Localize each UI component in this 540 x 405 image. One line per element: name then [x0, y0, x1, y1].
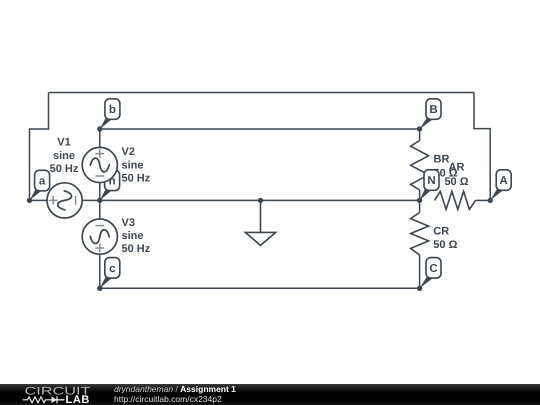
svg-text:50 Hz: 50 Hz [122, 173, 151, 185]
voltage source V1 [47, 183, 82, 218]
svg-text:A: A [500, 175, 508, 187]
junction node b [97, 126, 102, 131]
wire BR to N [419, 190, 421, 200]
label CR 50 ohm [433, 225, 457, 251]
wire CR to C [419, 255, 421, 288]
svg-text:sine: sine [53, 150, 75, 162]
svg-text:b: b [109, 104, 116, 116]
CircuitLab logo [0, 384, 120, 405]
wire right step down to node A [474, 93, 490, 201]
voltage source V2 [82, 147, 117, 182]
node n flag [100, 170, 120, 200]
junction node N [417, 198, 422, 203]
wire V2 bottom to n [99, 183, 101, 201]
svg-text:LAB: LAB [66, 394, 90, 405]
node c flag [100, 258, 120, 289]
svg-text:c: c [109, 263, 116, 275]
svg-text:AR: AR [449, 161, 465, 173]
junction node C [417, 286, 422, 291]
svg-text:BR: BR [434, 154, 450, 166]
svg-text:a: a [39, 176, 46, 188]
svg-text:B: B [429, 104, 437, 116]
label AR 50 ohm [444, 161, 468, 188]
svg-text:V3: V3 [122, 217, 135, 229]
junction node a [27, 198, 32, 203]
ground [245, 200, 275, 245]
wire b to B bus [100, 128, 420, 130]
svg-text:sine: sine [122, 230, 144, 242]
junction ground tap [258, 198, 263, 203]
wire B to resistor BR [419, 129, 421, 141]
junction node c [97, 286, 102, 291]
resistor BR [411, 141, 429, 191]
wire V3 bottom to c [99, 254, 101, 288]
wire V1 to n and mid bus to N [82, 199, 420, 201]
wire b to V2 top [99, 129, 101, 148]
svg-text:50 Ω: 50 Ω [433, 239, 457, 251]
wire AR to A [476, 199, 491, 201]
wire top bus [49, 92, 475, 94]
wire n to V3 top [99, 200, 101, 219]
svg-text:CR: CR [433, 225, 449, 237]
resistor AR [435, 191, 476, 209]
wire left step down to node a [30, 93, 49, 201]
svg-text:V2: V2 [122, 146, 135, 158]
wire N to resistor CR [419, 200, 421, 212]
footer title text [114, 384, 236, 404]
svg-text:50 Hz: 50 Hz [122, 243, 151, 255]
svg-text:C: C [429, 263, 437, 275]
label V2 sine 50 Hz [122, 146, 151, 184]
label BR 50 ohm [434, 154, 458, 180]
wire a to V1 [30, 199, 48, 201]
svg-text:50 Ω: 50 Ω [444, 176, 468, 188]
node a flag [30, 170, 50, 200]
node B flag [420, 99, 441, 129]
voltage source V3 [82, 219, 117, 254]
svg-text:N: N [427, 175, 435, 187]
svg-text:sine: sine [122, 159, 144, 171]
wire bottom bus c to C [100, 287, 420, 289]
label V3 sine 50 Hz [122, 217, 151, 255]
junction node B [417, 126, 422, 131]
junction node A [488, 198, 493, 203]
label V1 sine 50 Hz [50, 137, 79, 175]
svg-text:V1: V1 [57, 137, 70, 149]
resistor CR [411, 213, 429, 256]
node b flag [100, 99, 120, 129]
node C flag [420, 258, 441, 289]
node N flag [420, 170, 439, 201]
svg-text:50 Hz: 50 Hz [50, 163, 79, 175]
node A flag [490, 170, 511, 201]
junction node n [97, 198, 102, 203]
